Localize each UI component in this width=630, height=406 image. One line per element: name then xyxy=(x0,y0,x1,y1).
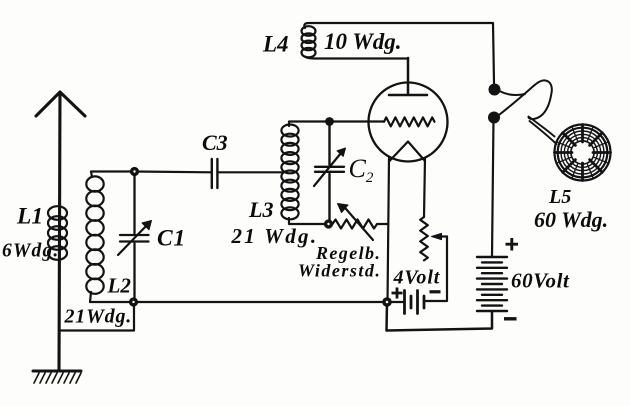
tube U1 envelope xyxy=(369,83,448,162)
battery 60 Volt xyxy=(477,257,507,311)
svg-text:21Wdg.: 21Wdg. xyxy=(64,306,133,328)
svg-text:60Volt: 60Volt xyxy=(511,269,570,293)
phone terminal bottom xyxy=(488,112,500,124)
svg-text:L3: L3 xyxy=(248,197,273,222)
wire L3 bottom to node E xyxy=(289,218,329,224)
wire filament left leg down xyxy=(388,158,390,302)
rheostat 4V filament xyxy=(420,217,447,301)
junction node A xyxy=(130,167,139,176)
wire node B to ground line xyxy=(59,302,134,331)
svg-text:4Volt: 4Volt xyxy=(393,267,441,289)
capacitor C2 xyxy=(314,122,346,225)
label minus 4V xyxy=(430,290,441,293)
tube grid xyxy=(384,117,435,126)
junction node D xyxy=(325,117,334,126)
coil L4 xyxy=(302,26,316,57)
tube filament xyxy=(390,142,426,162)
wire node B to node C xyxy=(134,301,388,303)
ground xyxy=(33,371,81,383)
svg-text:C3: C3 xyxy=(202,130,228,155)
capacitor C3 xyxy=(212,159,218,188)
wire L4 bottom to plate xyxy=(305,57,408,59)
wire L3 top to grid xyxy=(289,122,384,127)
wire filament right leg down xyxy=(424,158,425,217)
svg-text:60 Wdg.: 60 Wdg. xyxy=(534,207,608,232)
wire L2 top to node A xyxy=(91,172,135,178)
wire node A to C3 xyxy=(135,170,212,173)
svg-text:21 Wdg.: 21 Wdg. xyxy=(231,224,319,248)
phone cord xyxy=(497,80,557,144)
svg-text:L5: L5 xyxy=(548,186,571,208)
svg-text:L2: L2 xyxy=(107,274,132,298)
antenna xyxy=(36,92,85,371)
svg-text:L4: L4 xyxy=(262,32,289,57)
junction node C xyxy=(382,297,392,307)
label plus 4V xyxy=(392,288,403,299)
earpiece coil L5 xyxy=(555,125,611,181)
rheostat Regelb. Widerstd. xyxy=(329,204,389,241)
tube plate xyxy=(389,58,427,95)
wire L2 bottom to node B xyxy=(90,292,134,302)
wire C3 to L3 xyxy=(218,171,282,173)
junction node E xyxy=(324,219,333,228)
coil L2 xyxy=(86,176,103,293)
svg-text:C1: C1 xyxy=(157,226,186,252)
coil L3 xyxy=(281,125,298,220)
label plus 60V xyxy=(506,238,519,251)
wire node C down to bottom rail xyxy=(387,302,493,331)
coil L1 xyxy=(48,206,67,260)
svg-text:6Wdg.: 6Wdg. xyxy=(2,241,59,262)
svg-text:Widerstd.: Widerstd. xyxy=(298,261,381,281)
junction node B xyxy=(129,297,138,306)
svg-text:10 Wdg.: 10 Wdg. xyxy=(324,29,402,54)
svg-text:L1: L1 xyxy=(16,204,43,230)
wire L4 top rail to phones xyxy=(304,23,494,83)
phone terminal top xyxy=(489,84,501,96)
battery 4 Volt xyxy=(387,291,424,314)
label minus 60V xyxy=(504,317,517,320)
wire 60V battery top to phone terminal xyxy=(492,118,494,257)
capacitor C1 xyxy=(118,172,152,303)
